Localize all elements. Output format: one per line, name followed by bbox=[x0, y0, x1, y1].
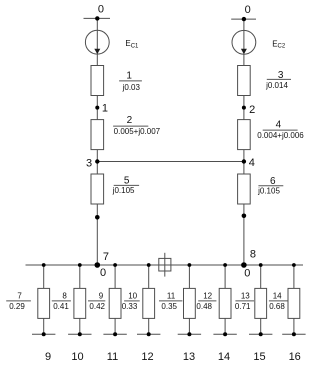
svg-text:5: 5 bbox=[124, 176, 130, 187]
svg-text:j0.105: j0.105 bbox=[257, 187, 280, 196]
svg-text:7: 7 bbox=[103, 251, 109, 263]
svg-text:8: 8 bbox=[62, 292, 67, 301]
svg-text:1: 1 bbox=[126, 70, 132, 81]
svg-text:7: 7 bbox=[17, 292, 22, 301]
svg-text:11: 11 bbox=[167, 292, 176, 301]
svg-text:12: 12 bbox=[141, 351, 153, 363]
svg-text:0.48: 0.48 bbox=[196, 302, 212, 311]
svg-text:4: 4 bbox=[249, 157, 255, 169]
svg-text:9: 9 bbox=[99, 292, 104, 301]
svg-text:j0.014: j0.014 bbox=[265, 81, 288, 90]
svg-text:14: 14 bbox=[273, 292, 282, 301]
svg-text:0: 0 bbox=[98, 3, 104, 15]
svg-text:1: 1 bbox=[102, 103, 108, 115]
svg-text:10: 10 bbox=[128, 292, 137, 301]
svg-text:13: 13 bbox=[183, 351, 195, 363]
svg-text:2: 2 bbox=[127, 115, 133, 126]
svg-text:12: 12 bbox=[203, 292, 212, 301]
svg-text:0.004+j0.006: 0.004+j0.006 bbox=[257, 131, 304, 140]
svg-text:16: 16 bbox=[289, 351, 301, 363]
svg-text:14: 14 bbox=[218, 351, 230, 363]
svg-text:0.35: 0.35 bbox=[161, 302, 177, 311]
svg-text:13: 13 bbox=[241, 292, 250, 301]
svg-text:0: 0 bbox=[100, 267, 106, 279]
svg-text:10: 10 bbox=[71, 351, 83, 363]
svg-text:3: 3 bbox=[86, 158, 92, 170]
svg-text:0.33: 0.33 bbox=[122, 302, 138, 311]
svg-text:9: 9 bbox=[45, 351, 51, 363]
svg-text:3: 3 bbox=[278, 70, 284, 81]
svg-text:C2: C2 bbox=[278, 44, 286, 50]
svg-text:0.71: 0.71 bbox=[235, 302, 251, 311]
svg-text:2: 2 bbox=[249, 104, 255, 116]
svg-text:0.41: 0.41 bbox=[53, 302, 69, 311]
svg-text:0.68: 0.68 bbox=[269, 302, 285, 311]
svg-text:4: 4 bbox=[276, 120, 282, 131]
svg-text:6: 6 bbox=[270, 176, 276, 187]
svg-text:0: 0 bbox=[244, 267, 250, 279]
svg-text:0.29: 0.29 bbox=[9, 302, 25, 311]
svg-text:C1: C1 bbox=[131, 44, 139, 50]
svg-text:11: 11 bbox=[107, 351, 118, 363]
svg-text:0.005+j0.007: 0.005+j0.007 bbox=[114, 127, 161, 136]
svg-text:8: 8 bbox=[250, 249, 256, 261]
svg-text:0: 0 bbox=[245, 4, 251, 16]
svg-text:j0.105: j0.105 bbox=[112, 186, 135, 195]
svg-text:0.42: 0.42 bbox=[89, 302, 105, 311]
svg-text:j0.03: j0.03 bbox=[122, 83, 141, 92]
svg-text:15: 15 bbox=[253, 351, 265, 363]
